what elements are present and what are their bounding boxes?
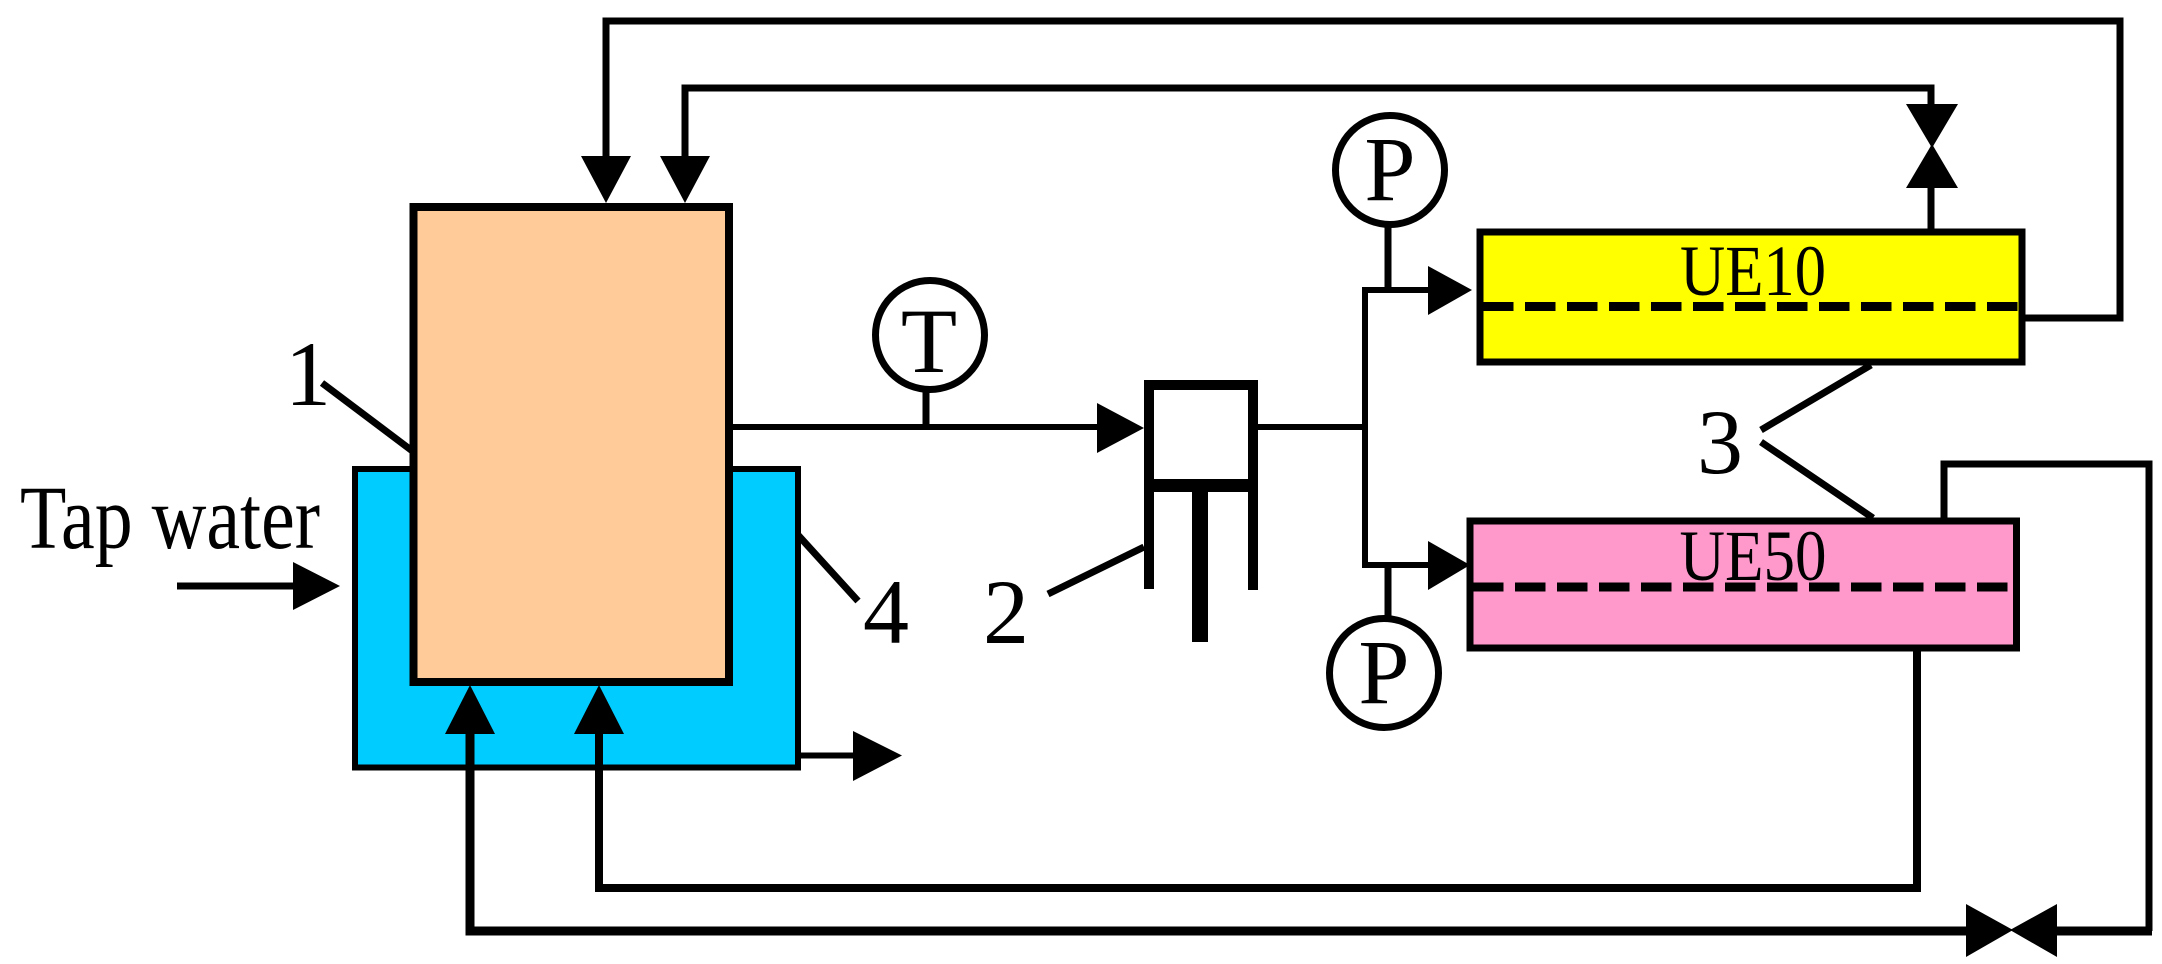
svg-text:2: 2 <box>983 561 1029 663</box>
bath outlet arrow <box>798 731 902 781</box>
valve V1 (vertical bowtie) <box>1906 104 1958 232</box>
dashed membrane line in UE50 <box>1473 583 2013 592</box>
membrane module UE50 (pink) <box>1470 521 2017 648</box>
arrowhead into pump 2 <box>1097 403 1144 453</box>
membrane module UE10 (yellow) <box>1480 232 2022 362</box>
wire: top recycle line (UE10 right to vessel top) <box>606 21 2120 318</box>
pump 2 (piston cylinder) <box>1144 380 1258 642</box>
pointer line for 3 (to UE10) <box>1761 365 1871 430</box>
svg-text:1: 1 <box>285 323 331 425</box>
manifold vertical wire <box>1362 290 1368 565</box>
water bath 4 (cyan tank) <box>355 469 798 768</box>
P sensor (bottom) circle <box>1330 619 1439 728</box>
svg-text:UE10: UE10 <box>1680 231 1826 311</box>
wire: UE50 retentate loop to its top <box>1944 464 2149 931</box>
svg-text:4: 4 <box>863 561 909 663</box>
svg-text:3: 3 <box>1697 391 1743 493</box>
svg-text:P: P <box>1364 118 1415 220</box>
arrowhead up into vessel bottom (left) <box>445 685 495 734</box>
pointer line for 3 (to UE50) <box>1761 442 1873 518</box>
svg-text:P: P <box>1358 621 1409 723</box>
arrowhead up into vessel bottom (right) <box>574 685 624 734</box>
vessel 1 (orange reactor) <box>414 207 730 682</box>
dashed membrane line in UE10 <box>1483 302 2019 311</box>
wire: second top feed line (valve to vessel top) <box>685 88 1931 162</box>
pointer line for 4 <box>798 535 858 601</box>
T sensor stem <box>923 388 930 427</box>
arrowhead into vessel top (left) <box>581 156 631 203</box>
wire: pump 2 to manifold <box>1257 424 1365 430</box>
wire: manifold to UE10 <box>1362 287 1430 293</box>
T sensor circle <box>876 281 985 390</box>
arrowhead into UE10 <box>1428 266 1472 315</box>
pointer line for 2 <box>1048 547 1144 594</box>
arrowhead into vessel top (right) <box>660 156 710 203</box>
P sensor (top) circle <box>1336 116 1445 225</box>
arrowhead into UE50 <box>1428 541 1470 590</box>
svg-text:T: T <box>901 290 957 392</box>
wire: manifold to UE50 <box>1362 562 1430 568</box>
wire: bottom return line (vessel bottom to valve) <box>470 722 1975 931</box>
svg-text:Tap water: Tap water <box>20 469 320 568</box>
pointer line for 1 <box>322 383 415 453</box>
tap water inlet arrow <box>177 562 340 610</box>
valve V2 (horizontal bowtie) <box>1966 904 2152 957</box>
P sensor (top) stem <box>1385 224 1392 290</box>
wire: UE50 permeate return to bath <box>599 649 1917 888</box>
P sensor (bottom) stem <box>1385 565 1392 620</box>
wire: vessel outlet to pump 2 <box>729 424 1100 430</box>
